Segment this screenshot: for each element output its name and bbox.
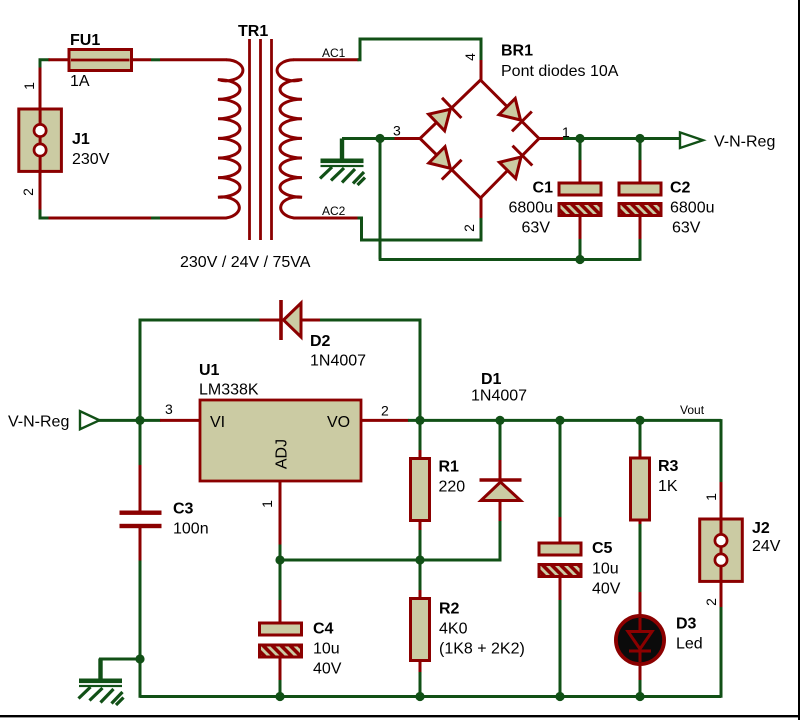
- wire pin R3 top: [639, 450, 642, 459]
- BR1 diode top-left: [429, 98, 462, 131]
- wire segment top: [151, 58, 160, 61]
- svg-text:C5: C5: [592, 540, 613, 557]
- svg-text:TR1: TR1: [238, 23, 268, 40]
- svg-text:24V: 24V: [752, 538, 781, 555]
- svg-text:2: 2: [703, 598, 719, 606]
- junction D3 bottom: [635, 692, 644, 701]
- wire pin D1 anode: [499, 501, 502, 523]
- junction ADJ node: [275, 555, 284, 564]
- svg-text:6800u: 6800u: [509, 200, 554, 217]
- wire pin BR1.2: [480, 197, 483, 218]
- svg-text:VI: VI: [210, 414, 225, 431]
- wire ground stub bottom: [99, 658, 140, 661]
- capacitor C3: [120, 511, 162, 529]
- svg-text:J2: J2: [752, 520, 770, 537]
- wire pin C1 bottom: [579, 215, 582, 240]
- svg-text:Vout: Vout: [680, 403, 705, 417]
- wire VO to Vout corner: [408, 419, 721, 422]
- svg-text:1: 1: [21, 82, 37, 90]
- wire J2 to bottom rail: [720, 607, 723, 698]
- svg-text:1: 1: [703, 493, 719, 501]
- wire left column to bottom rail: [139, 659, 142, 698]
- wire pin R3 bottom: [639, 520, 642, 525]
- wire pin C3 bottom: [139, 527, 142, 562]
- svg-text:C1: C1: [533, 180, 554, 197]
- wire C3 top green: [139, 420, 142, 466]
- svg-text:4K0: 4K0: [439, 621, 468, 638]
- ground top: [320, 139, 365, 186]
- svg-text:ADJ: ADJ: [274, 439, 291, 469]
- BR1 diode bottom-left: [429, 147, 462, 180]
- svg-text:40V: 40V: [313, 661, 342, 678]
- svg-text:100n: 100n: [173, 521, 209, 538]
- wire ADJ green: [279, 545, 282, 561]
- wire pin C2 top: [639, 160, 642, 184]
- terminal V-N-Reg output: [680, 132, 703, 148]
- wire C2 bottom green: [639, 239, 642, 261]
- wire pin C1 top: [579, 160, 582, 184]
- svg-text:10u: 10u: [313, 641, 340, 658]
- junction R2 bottom: [415, 692, 424, 701]
- wire pin J2.2: [720, 581, 723, 608]
- wire C5 top green: [559, 424, 562, 518]
- svg-text:3: 3: [165, 401, 173, 417]
- wire D1 top green: [499, 424, 502, 461]
- wire pin TR1 primary bottom: [160, 217, 227, 220]
- wire pin C4 bottom: [279, 657, 282, 682]
- wire bottom rail: [140, 695, 721, 698]
- resistor R1: [411, 459, 430, 521]
- wire pin R1 top: [419, 450, 422, 459]
- wire pin C2 bottom: [639, 215, 642, 240]
- wire node3 horizontal: [342, 137, 395, 140]
- svg-text:C4: C4: [313, 621, 334, 638]
- fuse FU1: [69, 50, 132, 71]
- svg-text:C3: C3: [173, 501, 194, 518]
- svg-text:3: 3: [393, 123, 401, 139]
- wire input to U1: [98, 419, 161, 422]
- wire pin R2 top: [419, 590, 422, 599]
- wire pin J1.1: [39, 68, 42, 111]
- wire pin TR1 secondary AC2: [294, 217, 359, 220]
- wire pin D3 cathode: [639, 664, 642, 681]
- svg-text:Pont diodes 10A: Pont diodes 10A: [501, 63, 619, 80]
- resistor R3: [631, 458, 650, 520]
- wire pin TR1 secondary AC1: [294, 58, 359, 61]
- terminal V-N-Reg input: [80, 411, 99, 429]
- svg-text:AC1: AC1: [322, 46, 346, 60]
- wire D1 to ADJ rail: [419, 521, 500, 560]
- wire C4 top green: [279, 560, 282, 601]
- wire pin D3 anode: [639, 592, 642, 616]
- svg-text:2: 2: [20, 188, 36, 196]
- svg-text:R3: R3: [658, 458, 679, 475]
- wire C5 bottom green: [559, 600, 562, 697]
- wire J1.1 to FU1 corner: [40, 60, 50, 68]
- svg-text:U1: U1: [199, 362, 220, 379]
- wire pin TR1 primary top: [160, 58, 227, 61]
- wire pin FU1 left: [49, 58, 71, 61]
- junction VO node: [415, 416, 424, 425]
- junction ground node: [135, 654, 144, 663]
- svg-text:BR1: BR1: [501, 43, 533, 60]
- svg-text:VO: VO: [327, 414, 350, 431]
- wire J1.2 corner: [40, 210, 50, 219]
- capacitor C1: [551, 183, 612, 218]
- wire C4 bottom green: [279, 680, 282, 697]
- wire pin U1.3: [160, 419, 201, 422]
- wire pin C3 top: [139, 465, 142, 512]
- transformer TR1 secondary winding: [277, 60, 302, 218]
- svg-text:1N4007: 1N4007: [471, 388, 527, 405]
- wire pin C5 top: [559, 517, 562, 544]
- svg-text:FU1: FU1: [70, 32, 100, 49]
- svg-text:D2: D2: [310, 333, 331, 350]
- wire pin BR1.4: [480, 60, 483, 81]
- BR1 diode bottom-right: [499, 146, 532, 179]
- resistor R2: [411, 599, 430, 661]
- wire D3 bottom green: [639, 680, 642, 697]
- wire R2 top green: [419, 560, 422, 591]
- wire pin D1 cathode: [499, 460, 502, 479]
- junction C5 top: [555, 416, 564, 425]
- svg-text:D3: D3: [676, 616, 697, 633]
- svg-text:40V: 40V: [592, 581, 621, 598]
- connector J1: [19, 109, 62, 171]
- svg-text:J1: J1: [72, 131, 90, 148]
- wire pin BR1.1: [539, 137, 563, 140]
- svg-text:D1: D1: [481, 371, 502, 388]
- wire pin D2 cathode: [260, 319, 281, 322]
- svg-text:63V: 63V: [672, 220, 701, 237]
- svg-text:R1: R1: [439, 458, 460, 475]
- wire R3 to D3 green: [639, 524, 642, 593]
- svg-text:6800u: 6800u: [670, 200, 715, 217]
- junction C1 top: [575, 134, 584, 143]
- svg-text:1: 1: [259, 500, 275, 508]
- junction C5 bottom: [555, 692, 564, 701]
- wire R1 bottom green: [419, 530, 422, 560]
- junction node 3: [375, 134, 384, 143]
- junction C4 bottom: [275, 692, 284, 701]
- wire C1 top green: [579, 142, 582, 161]
- junction input node: [135, 416, 144, 425]
- diode D1: [480, 480, 522, 501]
- wire left column up to D2 loop: [140, 320, 261, 420]
- capacitor C4: [252, 623, 313, 659]
- connector J2: [700, 519, 743, 581]
- diode D2: [281, 300, 301, 340]
- transformer TR1 primary winding: [218, 60, 243, 218]
- svg-text:R2: R2: [439, 601, 460, 618]
- svg-text:(1K8 + 2K2): (1K8 + 2K2): [439, 641, 525, 658]
- svg-text:63V: 63V: [522, 220, 551, 237]
- bridge rectifier BR1 diamond: [420, 80, 539, 198]
- junction R3 top: [635, 416, 644, 425]
- junction C2 top: [635, 134, 644, 143]
- svg-text:V-N-Reg: V-N-Reg: [8, 414, 69, 431]
- wire pin J1.2: [39, 171, 42, 210]
- junction D1 top: [495, 416, 504, 425]
- transformer TR1 core: [250, 39, 272, 240]
- wire bottom rail top section: [379, 258, 640, 261]
- wire Vout corner down to J2: [720, 419, 723, 483]
- svg-text:220: 220: [439, 479, 466, 496]
- wire bottom red run: [49, 217, 152, 220]
- svg-text:V-N-Reg: V-N-Reg: [714, 134, 775, 151]
- wire C2 top green: [639, 142, 642, 161]
- svg-text:2: 2: [461, 224, 477, 232]
- wire C3 bottom green: [139, 561, 142, 660]
- wire pin J2.1: [720, 482, 723, 520]
- svg-text:1K: 1K: [658, 478, 678, 495]
- wire pin C4 top: [279, 600, 282, 624]
- svg-text:230V / 24V / 75VA: 230V / 24V / 75VA: [180, 254, 311, 271]
- regulator U1 body: [200, 400, 361, 481]
- wire R3 top green: [639, 424, 642, 451]
- svg-text:10u: 10u: [592, 561, 619, 578]
- wire pin C5 bottom: [559, 576, 562, 601]
- wire pin R1 bottom: [419, 521, 422, 532]
- window border bottom/right (decorative): [0, 715, 800, 717]
- wire C1 bottom green: [579, 239, 582, 260]
- svg-text:1A: 1A: [70, 73, 90, 90]
- wire AC1 to bridge pin 4: [358, 39, 482, 61]
- BR1 diode top-right: [499, 98, 532, 131]
- junction R1 bottom node: [415, 555, 424, 564]
- LED D3: [616, 616, 664, 664]
- wire ADJ rail: [280, 559, 420, 562]
- wire segment bottom: [151, 217, 160, 220]
- ground bottom: [79, 659, 124, 706]
- capacitor C5: [531, 543, 592, 579]
- svg-text:1N4007: 1N4007: [310, 353, 366, 370]
- wire pin U1.2: [361, 419, 409, 422]
- junction C1 bottom: [575, 255, 584, 264]
- wire R1 top green: [419, 424, 422, 451]
- wire pin BR1.3: [394, 137, 420, 140]
- wire output rail to terminal: [563, 137, 680, 140]
- svg-text:Led: Led: [676, 636, 703, 653]
- svg-text:230V: 230V: [72, 151, 110, 168]
- wire R2 bottom green: [419, 672, 422, 697]
- wire pin U1.1 ADJ: [279, 481, 282, 546]
- svg-text:C2: C2: [670, 180, 691, 197]
- svg-text:2: 2: [381, 403, 389, 419]
- svg-text:LM338K: LM338K: [199, 382, 259, 399]
- capacitor C2: [611, 183, 672, 218]
- wire pin R2 bottom: [419, 661, 422, 674]
- wire AC2 to bridge pin 2: [358, 218, 482, 241]
- svg-text:4: 4: [462, 53, 478, 61]
- svg-text:AC2: AC2: [322, 204, 346, 218]
- wire node3 down: [379, 139, 382, 260]
- wire pin D2 anode: [301, 319, 321, 322]
- wire D2 loop right: [320, 320, 420, 420]
- wire pin FU1 right: [132, 58, 152, 61]
